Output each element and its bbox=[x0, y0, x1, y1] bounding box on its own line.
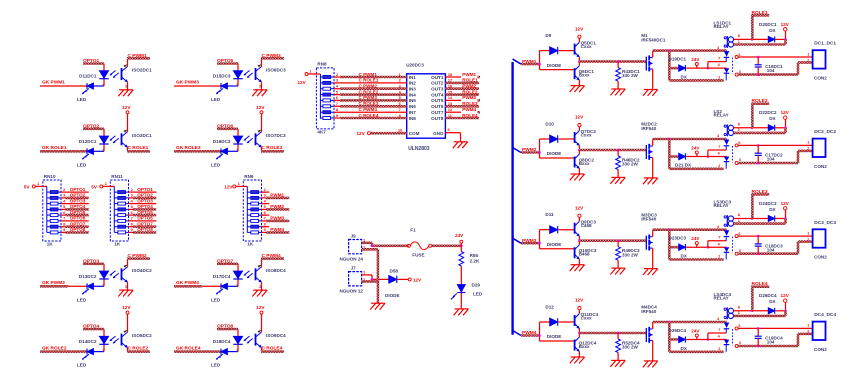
svg-text:2: 2 bbox=[102, 84, 104, 88]
svg-text:OPTO1: OPTO1 bbox=[137, 187, 153, 192]
svg-text:7: 7 bbox=[718, 145, 720, 149]
svg-text:C PWM4: C PWM4 bbox=[262, 253, 282, 259]
svg-text:IN6: IN6 bbox=[409, 104, 417, 109]
svg-text:PWM1: PWM1 bbox=[462, 72, 476, 77]
svg-text:8: 8 bbox=[738, 305, 740, 309]
svg-text:GK PWM1: GK PWM1 bbox=[42, 80, 65, 86]
svg-text:RN9: RN9 bbox=[244, 174, 254, 179]
svg-text:C ROLE3: C ROLE3 bbox=[262, 145, 283, 151]
svg-text:6: 6 bbox=[336, 96, 338, 100]
svg-text:FUSE: FUSE bbox=[412, 253, 424, 258]
svg-text:OPTO8: OPTO8 bbox=[137, 227, 153, 232]
svg-text:DC3_DC3: DC3_DC3 bbox=[814, 220, 836, 226]
svg-text:8: 8 bbox=[63, 223, 65, 227]
svg-text:330 2W: 330 2W bbox=[622, 252, 638, 257]
svg-text:C ROLE2: C ROLE2 bbox=[128, 345, 149, 351]
svg-text:IRF540: IRF540 bbox=[641, 217, 657, 222]
svg-text:9: 9 bbox=[448, 128, 450, 132]
svg-text:D14DC2: D14DC2 bbox=[79, 339, 97, 344]
svg-text:8: 8 bbox=[264, 223, 266, 227]
svg-text:D12: D12 bbox=[545, 304, 554, 309]
svg-text:RELAY: RELAY bbox=[714, 24, 729, 29]
svg-text:D58: D58 bbox=[390, 269, 399, 274]
svg-text:Bxxx: Bxxx bbox=[579, 344, 590, 349]
svg-text:DX: DX bbox=[681, 75, 688, 80]
svg-text:ROLE4: ROLE4 bbox=[462, 113, 478, 118]
svg-text:GK PWM4: GK PWM4 bbox=[176, 280, 199, 286]
svg-text:9: 9 bbox=[131, 228, 133, 232]
svg-text:DX: DX bbox=[769, 116, 776, 121]
svg-text:C PWM1: C PWM1 bbox=[128, 53, 148, 59]
svg-text:C ROLE1: C ROLE1 bbox=[359, 78, 379, 83]
svg-text:OPTO5: OPTO5 bbox=[70, 210, 86, 215]
svg-text:ULN2803: ULN2803 bbox=[408, 146, 430, 152]
svg-text:ROLE2: ROLE2 bbox=[462, 89, 478, 94]
svg-text:3: 3 bbox=[336, 79, 338, 83]
svg-text:4K7: 4K7 bbox=[317, 129, 326, 134]
svg-text:6: 6 bbox=[264, 211, 266, 215]
svg-text:C PWM2: C PWM2 bbox=[359, 84, 378, 89]
svg-text:ROLE3: ROLE3 bbox=[462, 101, 478, 106]
svg-text:DX: DX bbox=[769, 28, 776, 33]
svg-text:6: 6 bbox=[738, 232, 740, 236]
svg-text:J9: J9 bbox=[351, 233, 357, 238]
svg-text:PWM2: PWM2 bbox=[462, 84, 476, 89]
svg-text:GK PWM2: GK PWM2 bbox=[42, 280, 65, 286]
svg-text:12V: 12V bbox=[575, 205, 584, 210]
svg-text:24V: 24V bbox=[691, 236, 700, 241]
svg-text:C ROLE1: C ROLE1 bbox=[128, 145, 149, 151]
svg-text:DX: DX bbox=[681, 254, 688, 259]
svg-text:104: 104 bbox=[767, 340, 775, 345]
svg-text:2: 2 bbox=[264, 188, 266, 192]
svg-text:OPTO3: OPTO3 bbox=[137, 198, 153, 203]
svg-text:CON2: CON2 bbox=[814, 347, 827, 352]
svg-text:1: 1 bbox=[807, 231, 809, 235]
svg-text:OPTO6: OPTO6 bbox=[217, 123, 234, 129]
svg-text:IN1: IN1 bbox=[409, 75, 417, 80]
svg-text:3: 3 bbox=[399, 85, 401, 89]
svg-text:12V: 12V bbox=[781, 22, 790, 27]
svg-text:D10: D10 bbox=[545, 121, 554, 126]
svg-text:330 2W: 330 2W bbox=[622, 73, 638, 78]
svg-text:RN8: RN8 bbox=[317, 62, 327, 67]
svg-text:RN11: RN11 bbox=[111, 174, 123, 179]
svg-text:2: 2 bbox=[718, 164, 720, 168]
svg-text:OUT5: OUT5 bbox=[431, 98, 444, 103]
svg-text:Bxxx: Bxxx bbox=[579, 72, 590, 77]
svg-text:1K: 1K bbox=[114, 242, 121, 247]
svg-text:OPTO2: OPTO2 bbox=[137, 193, 153, 198]
svg-text:R55: R55 bbox=[470, 253, 479, 258]
svg-text:2: 2 bbox=[102, 149, 104, 153]
svg-text:6: 6 bbox=[738, 53, 740, 57]
svg-text:C PWM3: C PWM3 bbox=[359, 95, 378, 100]
svg-text:5V: 5V bbox=[91, 185, 98, 190]
svg-text:7: 7 bbox=[131, 217, 133, 221]
svg-text:D18DC4: D18DC4 bbox=[213, 339, 231, 344]
svg-text:ISO7DC3: ISO7DC3 bbox=[266, 133, 286, 138]
svg-text:OPTO6: OPTO6 bbox=[70, 216, 86, 221]
svg-text:D12DC1: D12DC1 bbox=[79, 139, 97, 144]
svg-text:6: 6 bbox=[399, 102, 401, 106]
svg-text:9: 9 bbox=[336, 114, 338, 118]
svg-text:1: 1 bbox=[807, 324, 809, 328]
svg-text:6: 6 bbox=[131, 211, 133, 215]
svg-text:IRF540: IRF540 bbox=[641, 126, 657, 131]
svg-text:IN2: IN2 bbox=[409, 81, 417, 86]
svg-text:J7: J7 bbox=[351, 265, 357, 270]
svg-text:ISO6DC3: ISO6DC3 bbox=[266, 68, 286, 73]
svg-text:8: 8 bbox=[131, 223, 133, 227]
svg-text:24V: 24V bbox=[691, 146, 700, 151]
svg-text:3: 3 bbox=[125, 85, 127, 89]
svg-text:OUT1: OUT1 bbox=[431, 75, 444, 80]
svg-text:D25DC4: D25DC4 bbox=[669, 328, 687, 333]
svg-text:OUT6: OUT6 bbox=[431, 104, 444, 109]
svg-text:C468: C468 bbox=[581, 223, 592, 228]
svg-text:1K: 1K bbox=[247, 242, 254, 247]
svg-text:D23DC3: D23DC3 bbox=[669, 236, 687, 241]
svg-text:5: 5 bbox=[336, 90, 338, 94]
svg-text:GND: GND bbox=[433, 131, 444, 136]
svg-text:5V: 5V bbox=[24, 185, 31, 190]
svg-text:D19DC1: D19DC1 bbox=[669, 56, 687, 61]
svg-text:DIODE: DIODE bbox=[547, 334, 562, 339]
svg-text:OPTO7: OPTO7 bbox=[217, 258, 234, 264]
svg-text:1: 1 bbox=[105, 182, 107, 186]
svg-text:U20DC3: U20DC3 bbox=[406, 63, 424, 68]
svg-text:3: 3 bbox=[131, 194, 133, 198]
svg-text:2: 2 bbox=[718, 347, 720, 351]
svg-text:ISO2DC1: ISO2DC1 bbox=[132, 68, 152, 73]
svg-text:PWM4: PWM4 bbox=[462, 107, 476, 112]
svg-text:1: 1 bbox=[807, 52, 809, 56]
svg-text:1: 1 bbox=[238, 182, 240, 186]
svg-text:12V: 12V bbox=[122, 305, 131, 311]
svg-text:7: 7 bbox=[336, 102, 338, 106]
svg-text:GK ROLE3: GK ROLE3 bbox=[176, 145, 201, 151]
svg-text:3: 3 bbox=[125, 285, 127, 289]
svg-text:D16DC3: D16DC3 bbox=[213, 139, 231, 144]
svg-text:B468: B468 bbox=[579, 252, 590, 257]
svg-text:LED: LED bbox=[77, 297, 87, 302]
svg-text:5: 5 bbox=[264, 205, 266, 209]
svg-text:OPTO2: OPTO2 bbox=[70, 193, 86, 198]
svg-text:7: 7 bbox=[718, 236, 720, 240]
svg-text:3: 3 bbox=[739, 249, 741, 253]
svg-text:IRF540DC1: IRF540DC1 bbox=[641, 38, 666, 43]
svg-text:D26DC4: D26DC4 bbox=[759, 293, 777, 298]
svg-text:8: 8 bbox=[738, 213, 740, 217]
svg-text:PWM4: PWM4 bbox=[270, 227, 284, 232]
svg-text:DIODE: DIODE bbox=[547, 151, 562, 156]
svg-text:OPTO7: OPTO7 bbox=[137, 222, 153, 227]
svg-text:OUT2: OUT2 bbox=[431, 81, 444, 86]
svg-text:12V: 12V bbox=[781, 201, 790, 206]
svg-text:7: 7 bbox=[399, 108, 401, 112]
svg-text:LED: LED bbox=[211, 363, 221, 368]
svg-text:DC1_DC1: DC1_DC1 bbox=[814, 41, 836, 47]
svg-text:PWM1: PWM1 bbox=[270, 193, 284, 198]
svg-text:3: 3 bbox=[259, 285, 261, 289]
svg-text:Cxxx: Cxxx bbox=[581, 315, 592, 320]
svg-text:D11DC1: D11DC1 bbox=[79, 74, 97, 79]
svg-text:IN7: IN7 bbox=[409, 110, 417, 115]
svg-text:C PWM1: C PWM1 bbox=[359, 72, 378, 77]
svg-text:LED: LED bbox=[77, 363, 87, 368]
svg-text:C ROLE3: C ROLE3 bbox=[359, 101, 379, 106]
svg-text:OPTO8: OPTO8 bbox=[70, 227, 86, 232]
svg-text:7: 7 bbox=[718, 57, 720, 61]
svg-text:C PWM3: C PWM3 bbox=[262, 53, 282, 59]
svg-text:3: 3 bbox=[739, 341, 741, 345]
svg-text:3: 3 bbox=[63, 194, 65, 198]
svg-text:7: 7 bbox=[264, 217, 266, 221]
svg-text:2: 2 bbox=[102, 349, 104, 353]
svg-text:ISO9DC4: ISO9DC4 bbox=[266, 333, 286, 338]
svg-text:9: 9 bbox=[63, 228, 65, 232]
svg-text:104: 104 bbox=[767, 247, 775, 252]
svg-text:D29: D29 bbox=[472, 283, 481, 288]
svg-text:D21 DX: D21 DX bbox=[675, 163, 692, 168]
svg-text:2: 2 bbox=[236, 284, 238, 288]
svg-text:OPTO3: OPTO3 bbox=[70, 198, 86, 203]
svg-text:OPTO2: OPTO2 bbox=[83, 123, 100, 129]
svg-text:6: 6 bbox=[738, 141, 740, 145]
svg-text:D20DC1: D20DC1 bbox=[759, 22, 777, 27]
svg-text:3: 3 bbox=[739, 158, 741, 162]
svg-text:OUT8: OUT8 bbox=[431, 116, 444, 121]
svg-text:5: 5 bbox=[399, 96, 401, 100]
svg-text:2: 2 bbox=[236, 349, 238, 353]
svg-text:D17DC4: D17DC4 bbox=[213, 274, 231, 279]
svg-text:2: 2 bbox=[102, 284, 104, 288]
svg-text:D22DC2: D22DC2 bbox=[759, 110, 777, 115]
svg-text:12V: 12V bbox=[256, 105, 265, 111]
svg-text:OPTO8: OPTO8 bbox=[217, 324, 234, 330]
svg-text:LED: LED bbox=[77, 162, 87, 167]
svg-text:CON2: CON2 bbox=[814, 164, 827, 169]
svg-text:24V: 24V bbox=[691, 57, 700, 62]
svg-text:RELAY: RELAY bbox=[714, 113, 729, 118]
svg-text:1: 1 bbox=[399, 73, 401, 77]
svg-text:OPTO4: OPTO4 bbox=[70, 204, 86, 209]
svg-text:Cxxx: Cxxx bbox=[581, 132, 592, 137]
svg-text:GK ROLE1: GK ROLE1 bbox=[42, 145, 67, 151]
svg-text:3: 3 bbox=[739, 70, 741, 74]
svg-text:12V: 12V bbox=[357, 131, 366, 136]
svg-text:3: 3 bbox=[264, 194, 266, 198]
svg-text:5: 5 bbox=[131, 205, 133, 209]
svg-text:CON2: CON2 bbox=[814, 76, 827, 81]
svg-text:RN10: RN10 bbox=[44, 174, 56, 179]
svg-text:C ROLE4: C ROLE4 bbox=[262, 345, 283, 351]
svg-text:5: 5 bbox=[63, 205, 65, 209]
svg-text:NGUON 24: NGUON 24 bbox=[340, 257, 364, 262]
svg-text:2: 2 bbox=[236, 149, 238, 153]
svg-text:D9: D9 bbox=[545, 33, 551, 38]
svg-text:IRF540: IRF540 bbox=[641, 309, 657, 314]
svg-text:ISO8DC4: ISO8DC4 bbox=[266, 268, 286, 273]
svg-text:ISO4DC2: ISO4DC2 bbox=[132, 268, 152, 273]
svg-text:12V: 12V bbox=[256, 305, 265, 311]
svg-text:12V: 12V bbox=[298, 80, 307, 85]
svg-text:8: 8 bbox=[336, 108, 338, 112]
svg-text:LED: LED bbox=[211, 97, 221, 102]
svg-text:12V: 12V bbox=[781, 293, 790, 298]
svg-text:8: 8 bbox=[738, 122, 740, 126]
svg-text:2: 2 bbox=[399, 79, 401, 83]
svg-text:6: 6 bbox=[63, 211, 65, 215]
svg-text:7: 7 bbox=[63, 217, 65, 221]
svg-text:9: 9 bbox=[264, 228, 266, 232]
svg-text:1K: 1K bbox=[47, 242, 54, 247]
svg-text:DIODE: DIODE bbox=[547, 242, 562, 247]
svg-text:OPTO1: OPTO1 bbox=[70, 187, 86, 192]
svg-text:12V: 12V bbox=[413, 277, 422, 282]
svg-text:ISO5DC2: ISO5DC2 bbox=[132, 333, 152, 338]
svg-text:2: 2 bbox=[131, 188, 133, 192]
svg-text:IN5: IN5 bbox=[409, 98, 417, 103]
svg-text:ROLE1: ROLE1 bbox=[462, 78, 478, 83]
svg-text:10: 10 bbox=[398, 129, 402, 133]
svg-text:PWM3: PWM3 bbox=[462, 95, 476, 100]
svg-text:GK ROLE2: GK ROLE2 bbox=[42, 345, 67, 351]
svg-text:12V: 12V bbox=[781, 110, 790, 115]
svg-text:12V: 12V bbox=[575, 115, 584, 120]
svg-text:8: 8 bbox=[399, 114, 401, 118]
svg-text:C ROLE4: C ROLE4 bbox=[359, 113, 379, 118]
svg-text:DIODE: DIODE bbox=[385, 293, 400, 298]
svg-text:DX: DX bbox=[681, 346, 688, 351]
svg-text:Cxxx: Cxxx bbox=[581, 44, 592, 49]
svg-text:F1: F1 bbox=[410, 228, 416, 233]
svg-text:18: 18 bbox=[448, 73, 452, 77]
svg-text:DC4_DC4: DC4_DC4 bbox=[814, 312, 836, 318]
svg-text:IN3: IN3 bbox=[409, 87, 417, 92]
svg-text:LED: LED bbox=[77, 97, 87, 102]
svg-text:OPTO5: OPTO5 bbox=[137, 210, 153, 215]
svg-text:OPTO5: OPTO5 bbox=[217, 58, 234, 64]
svg-text:ISO3DC1: ISO3DC1 bbox=[132, 133, 152, 138]
svg-text:C PWM2: C PWM2 bbox=[128, 253, 148, 259]
svg-text:LED: LED bbox=[211, 297, 221, 302]
svg-text:COM: COM bbox=[409, 131, 420, 136]
svg-text:RELAY: RELAY bbox=[714, 296, 729, 301]
svg-text:DX: DX bbox=[769, 207, 776, 212]
svg-text:OPTO4: OPTO4 bbox=[137, 204, 153, 209]
svg-text:OUT7: OUT7 bbox=[431, 110, 444, 115]
svg-text:12: 12 bbox=[448, 108, 452, 112]
svg-text:12V: 12V bbox=[575, 26, 584, 31]
svg-text:104: 104 bbox=[767, 157, 775, 162]
svg-text:2.2K: 2.2K bbox=[470, 258, 480, 263]
svg-text:DIODE: DIODE bbox=[547, 63, 562, 68]
svg-text:OPTO7: OPTO7 bbox=[70, 222, 86, 227]
svg-text:NGUON 12: NGUON 12 bbox=[340, 289, 364, 294]
svg-text:OUT3: OUT3 bbox=[431, 87, 444, 92]
svg-text:OPTO3: OPTO3 bbox=[83, 258, 100, 264]
svg-text:PWM3: PWM3 bbox=[270, 216, 284, 221]
svg-text:24V: 24V bbox=[455, 233, 464, 238]
svg-text:330 2W: 330 2W bbox=[622, 345, 638, 350]
svg-text:C PWM4: C PWM4 bbox=[359, 107, 378, 112]
svg-text:2: 2 bbox=[336, 73, 338, 77]
svg-text:12V: 12V bbox=[224, 185, 233, 190]
svg-text:104: 104 bbox=[767, 68, 775, 73]
svg-text:7: 7 bbox=[718, 328, 720, 332]
svg-text:LED: LED bbox=[211, 162, 221, 167]
svg-text:IN4: IN4 bbox=[409, 92, 417, 97]
svg-text:PWM2: PWM2 bbox=[270, 204, 284, 209]
svg-text:LED: LED bbox=[473, 292, 483, 297]
svg-text:D15DC3: D15DC3 bbox=[213, 74, 231, 79]
svg-text:DC2_DC2: DC2_DC2 bbox=[814, 129, 836, 135]
svg-text:OPTO4: OPTO4 bbox=[83, 324, 100, 330]
svg-text:1: 1 bbox=[37, 182, 39, 186]
svg-text:GK ROLE4: GK ROLE4 bbox=[176, 345, 201, 351]
svg-text:GK PWM3: GK PWM3 bbox=[176, 80, 199, 86]
svg-text:1: 1 bbox=[807, 141, 809, 145]
svg-text:IN8: IN8 bbox=[409, 116, 417, 121]
svg-text:DX: DX bbox=[769, 299, 776, 304]
svg-text:OPTO6: OPTO6 bbox=[137, 216, 153, 221]
svg-text:8: 8 bbox=[738, 34, 740, 38]
svg-text:D13DC2: D13DC2 bbox=[79, 274, 97, 279]
svg-text:12V: 12V bbox=[575, 298, 584, 303]
svg-text:D11: D11 bbox=[545, 212, 554, 217]
svg-text:OPTO1: OPTO1 bbox=[83, 58, 100, 64]
svg-text:2: 2 bbox=[718, 75, 720, 79]
svg-text:1: 1 bbox=[738, 219, 740, 223]
svg-text:Bxxx: Bxxx bbox=[579, 161, 590, 166]
svg-text:2: 2 bbox=[236, 84, 238, 88]
svg-text:24V: 24V bbox=[691, 329, 700, 334]
svg-text:2: 2 bbox=[63, 188, 65, 192]
svg-text:3: 3 bbox=[259, 85, 261, 89]
svg-text:6: 6 bbox=[738, 324, 740, 328]
svg-text:CON2: CON2 bbox=[814, 255, 827, 260]
svg-text:OUT4: OUT4 bbox=[431, 92, 444, 97]
svg-text:2: 2 bbox=[718, 255, 720, 259]
svg-text:C ROLE2: C ROLE2 bbox=[359, 89, 379, 94]
svg-text:330 2W: 330 2W bbox=[622, 162, 638, 167]
svg-text:D24DC3: D24DC3 bbox=[759, 201, 777, 206]
svg-text:RELAY: RELAY bbox=[714, 203, 729, 208]
svg-text:1: 1 bbox=[310, 70, 312, 74]
svg-text:12V: 12V bbox=[122, 105, 131, 111]
svg-text:1: 1 bbox=[363, 271, 365, 275]
